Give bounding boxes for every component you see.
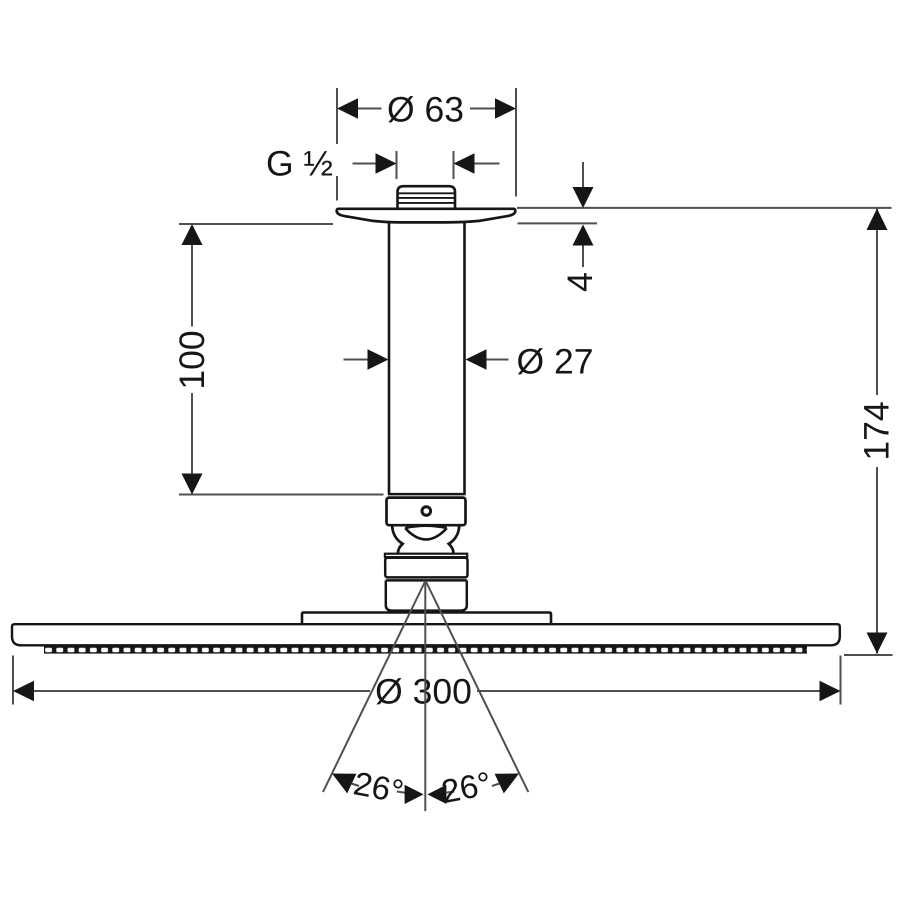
ball joint sphere lens bottom arc: [405, 528, 447, 539]
thread rib line 1: [398, 192, 456, 194]
svg-text:G ½: G ½: [266, 144, 333, 184]
spray cone center line: [424, 581, 426, 811]
dimension 100 dim line lower: [191, 393, 193, 474]
ball joint right socket edge: [449, 525, 459, 553]
dimension G1/2 extension line right: [453, 151, 455, 179]
dimension 174 arrow down: [867, 633, 888, 654]
dimension Ø63 dim line right segment: [470, 108, 498, 110]
ball joint sphere lens top arc: [405, 526, 447, 528]
connector box: [387, 498, 466, 526]
dimension Ø300 extension line left: [12, 656, 14, 705]
angle arc segment right: [492, 784, 500, 787]
svg-text:100: 100: [172, 330, 212, 389]
dimension G1/2 leader line right: [475, 163, 500, 165]
dimension Ø27 arrow left (points right): [368, 349, 389, 370]
thread rib line 2: [398, 197, 456, 199]
spray cone left line: [323, 581, 425, 792]
angle arc left outer arrow: [332, 774, 356, 794]
dimension Ø63 arrow right: [495, 98, 516, 119]
svg-text:Ø 63: Ø 63: [387, 89, 464, 129]
dimension 174 dim line lower: [876, 467, 878, 654]
dimension 4 upper leader line: [582, 162, 584, 189]
dimension 4 lower leader line: [582, 246, 584, 268]
svg-text:174: 174: [857, 401, 897, 460]
dimension 4 arrow up: [573, 225, 594, 246]
angle arc segment left: [352, 784, 360, 787]
dimension Ø63 extension line left: [336, 88, 338, 144]
dimension Ø300 arrow left: [13, 681, 34, 702]
head swivel lower box: [386, 580, 467, 610]
dimension 174 dim line upper: [876, 209, 878, 396]
angle arc segment left-inner: [397, 792, 405, 793]
svg-text:Ø 300: Ø 300: [375, 672, 472, 712]
thread rib line 3: [398, 202, 456, 204]
dimension Ø63 arrow left: [337, 98, 358, 119]
shower arm pipe right edge: [463, 223, 466, 495]
dimension G1/2 arrow left (points right): [376, 153, 397, 174]
thread stub body: [398, 186, 456, 209]
dimension Ø300 arrow right: [820, 681, 841, 702]
dimension 100 bottom extension line: [179, 494, 384, 496]
dimension Ø27 leader line right: [487, 359, 509, 361]
angle arc inner-right arrow (points left): [427, 785, 446, 804]
dimension Ø63 extension line right: [515, 88, 517, 197]
plate bottom extension line (to 4 dim): [518, 222, 598, 224]
svg-text:Ø 27: Ø 27: [517, 341, 594, 381]
dimension G1/2 extension line left: [396, 151, 398, 179]
ceiling level extension line (to 174 dim): [517, 207, 892, 209]
connector screw hole: [422, 507, 431, 516]
angle arc inner-left arrow (points right): [405, 785, 424, 804]
dimension 174 arrow up: [867, 209, 888, 231]
dimension 100 top extension line: [179, 223, 333, 225]
dimension G1/2 arrow right (points left): [454, 153, 475, 174]
spray nozzle band with outlet slots: [44, 645, 807, 653]
ceiling escutcheon plate: [337, 209, 516, 223]
head swivel upper box: [385, 558, 467, 578]
svg-text:4: 4: [560, 272, 600, 292]
dimension Ø300 dim line left: [34, 690, 370, 692]
dimension 100 dim line upper: [191, 245, 193, 327]
head swivel flange band: [385, 554, 467, 557]
dimension Ø27 leader line left: [344, 359, 370, 361]
dimension Ø27 arrow right (points left): [466, 349, 487, 370]
dimension G1/2 leader line left: [353, 163, 378, 165]
mounting step plate: [302, 613, 551, 625]
shower arm pipe bottom line: [388, 493, 466, 496]
dimension Ø300 extension line right: [840, 656, 842, 705]
ball joint left socket edge: [392, 525, 402, 553]
dimension 100 arrow up: [182, 224, 203, 245]
step plate top heavy segment under head: [388, 610, 465, 613]
spray cone right line: [426, 581, 529, 792]
dimension Ø63 dim line left segment: [355, 108, 382, 110]
dimension 4 arrow down: [573, 187, 594, 208]
dimension 100 arrow down: [182, 474, 203, 495]
angle arc segment right-inner: [446, 792, 454, 793]
dimension 174 bottom extension line: [844, 654, 893, 656]
dimension Ø300 dim line right: [477, 690, 820, 692]
shower arm pipe left edge: [388, 223, 391, 495]
shower head plate: [12, 624, 840, 645]
angle arc right outer arrow: [495, 774, 519, 794]
